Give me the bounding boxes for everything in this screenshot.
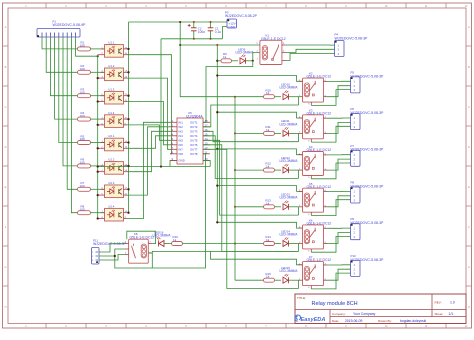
svg-text:C: C [468,106,470,109]
svg-text:IN4: IN4 [179,134,184,138]
resistor R10 1k [235,96,264,98]
svg-text:IN1: IN1 [179,120,184,124]
svg-text:LED-3MM/A: LED-3MM/A [236,51,255,55]
wire GND rail down [160,39,162,167]
wire +12V to K4 coil [217,149,302,155]
svg-text:Your Company: Your Company [353,312,376,316]
svg-text:LED-3MM/A: LED-3MM/A [280,269,299,273]
wire +12V to K5 coil [217,186,302,192]
svg-text:OUT5: OUT5 [190,138,198,142]
wire K2 to P5 [328,80,351,82]
svg-text:OUT1: OUT1 [190,120,198,124]
wire ULN pin10 GND [203,161,210,167]
wire +12V to K3 coil [217,112,302,118]
svg-text:Date:: Date: [332,319,339,323]
wire P1 pin9 GND to opto cathode bus [76,37,98,56]
wire ULN pin 9 to GND [170,161,177,167]
svg-text:G: G [5,266,7,269]
wire K4 to P7 [328,154,351,156]
wire P3 GND pin [223,27,228,39]
wire GND return [98,166,211,168]
svg-text:WJ2EDGVC-5.08-3P: WJ2EDGVC-5.08-3P [335,36,369,40]
wire OUT8 route [152,154,205,268]
svg-text:TITLE:: TITLE: [297,296,306,300]
svg-text:OUT7: OUT7 [190,147,198,151]
svg-text:LED-3MM/A: LED-3MM/A [280,86,299,90]
svg-text:OUT8: OUT8 [190,152,198,156]
wire +12V bus B [216,45,218,222]
capacitor C1 0.1u [210,22,212,28]
svg-text:OUT2: OUT2 [190,125,198,129]
svg-text:D: D [5,146,7,149]
wire OUT2 route [203,105,299,127]
svg-text:Drawn By:: Drawn By: [378,319,392,323]
wire K7 to P10 [328,264,351,266]
wire K1 to P4 [286,44,335,46]
svg-text:LED-3MM/A: LED-3MM/A [280,196,299,200]
svg-text:H: H [468,306,470,309]
wire LED9 to K1 coil [253,53,260,61]
svg-text:IN2: IN2 [179,125,184,129]
wire opto collector bus [128,22,130,213]
svg-text:D: D [468,146,470,149]
wire K6 to P9 [328,227,351,229]
svg-text:1/1: 1/1 [449,312,454,316]
svg-text:C: C [5,106,7,109]
wire +12V rail to K1 [180,44,260,46]
resistor R13 1k [235,206,264,208]
svg-text:2019-06-09: 2019-06-09 [345,319,362,323]
wire P1 inputs to resistors [42,37,78,213]
svg-text:Company:: Company: [332,312,346,316]
wire K8 coil bottom to K6 K7 line [148,251,298,253]
wire +12V to K2 coil [217,76,302,82]
svg-text:H: H [5,306,7,309]
resistor R11 1k [235,132,264,134]
svg-text:100u: 100u [198,30,205,34]
svg-text:bogdan.dolzynski: bogdan.dolzynski [400,319,426,323]
svg-text:GND: GND [228,25,236,29]
svg-text:0.1u: 0.1u [215,30,221,34]
svg-text:IN8: IN8 [179,152,184,156]
svg-text:GND: GND [179,159,185,163]
wire +12V feed down [180,22,235,97]
svg-text:LED-3MM/A: LED-3MM/A [153,234,172,238]
svg-text:LED-3MM/A: LED-3MM/A [280,232,299,236]
wire OUT5 route [203,140,299,215]
wire R16 to +12V bus [183,243,236,245]
wire +12V to K6 coil [217,222,302,228]
svg-text:WJ2EDGVC-5.08-2P: WJ2EDGVC-5.08-2P [225,14,258,18]
wire opto cathode bus [97,55,99,219]
wire GND rail [161,38,223,40]
svg-text:Relay module 8CH: Relay module 8CH [312,301,358,307]
wire opto outputs to ULN inputs [127,55,172,219]
svg-text:1.0: 1.0 [450,301,455,305]
title block [295,294,466,324]
resistor R12 1k [235,169,264,171]
capacitor C2 100u [193,22,195,28]
svg-text:LED-3MM/A: LED-3MM/A [280,122,299,126]
wire OUT3 route [203,131,299,141]
resistor R15 1k [235,279,264,281]
wire +12V to K7 coil [211,251,303,264]
resistor R9 1k [217,60,221,62]
svg-text:LED-3MM/A: LED-3MM/A [280,159,299,163]
EasyEDA logo [295,315,301,321]
svg-text:IN3: IN3 [179,129,184,133]
wire +12V bus A [234,97,236,281]
svg-text:OUT3: OUT3 [190,129,198,133]
svg-text:IN6: IN6 [179,143,184,147]
svg-text:WJ2EDGVC-5.08-9P: WJ2EDGVC-5.08-9P [53,23,87,27]
wire OUT1 to K1 [203,61,253,123]
wire OUT6 route [203,145,299,252]
svg-text:EasyEDA: EasyEDA [301,317,326,323]
svg-text:REV:: REV: [435,301,442,305]
resistor R14 1k [235,243,264,245]
wire OUT7 route [203,149,299,288]
wire K3 to P6 [328,117,351,119]
svg-text:IN7: IN7 [179,147,184,151]
wire +12V rail top [129,21,228,23]
wire K5 to P8 [328,190,351,192]
wire OUT4 route [203,136,299,179]
wire K8 common return [115,256,153,268]
svg-text:G: G [468,266,470,269]
wire P11 to K8 [99,244,125,253]
svg-text:OUT4: OUT4 [190,134,198,138]
svg-text:IN5: IN5 [179,138,184,142]
svg-text:Sheet:: Sheet: [435,312,444,316]
svg-text:OUT6: OUT6 [190,143,198,147]
wire K8 coil top loop [127,231,156,243]
